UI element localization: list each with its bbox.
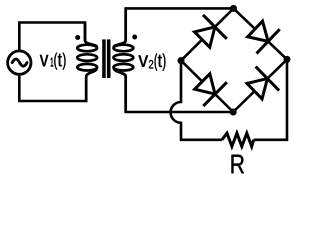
node left junction dot	[178, 57, 185, 64]
transformer secondary winding	[114, 8, 134, 112]
wire bottom rail to right node	[254, 59, 287, 139]
diode D3 lower-left	[195, 74, 227, 106]
diode D1 upper-left	[195, 15, 227, 47]
node top junction dot	[230, 5, 237, 12]
diode D4 lower-right	[247, 67, 279, 99]
wire left node down, crossover hop, to resistor	[171, 61, 222, 140]
node right junction dot	[284, 56, 291, 63]
resistor R zigzag	[222, 133, 254, 146]
wire bridge branch left-top	[181, 8, 234, 60]
AC source v1	[8, 51, 31, 74]
label R	[232, 155, 244, 174]
wire secondary bottom to bridge bottom node	[126, 77, 234, 112]
diode D2 upper-right	[248, 21, 280, 53]
polarity dot secondary	[132, 35, 137, 40]
transformer core	[102, 39, 110, 78]
wire bridge branch bottom-right	[233, 59, 287, 112]
transformer primary winding	[77, 23, 97, 102]
wire bridge branch top-right	[234, 8, 288, 59]
wire primary bottom	[19, 74, 86, 101]
wire secondary top to bridge top node	[126, 8, 234, 41]
label v1(t)	[40, 53, 66, 70]
label v2(t)	[139, 53, 166, 70]
wire bridge branch left-bottom	[181, 61, 233, 112]
wire primary top	[19, 23, 85, 51]
node bottom junction dot	[230, 109, 237, 116]
polarity dot primary	[75, 35, 80, 40]
